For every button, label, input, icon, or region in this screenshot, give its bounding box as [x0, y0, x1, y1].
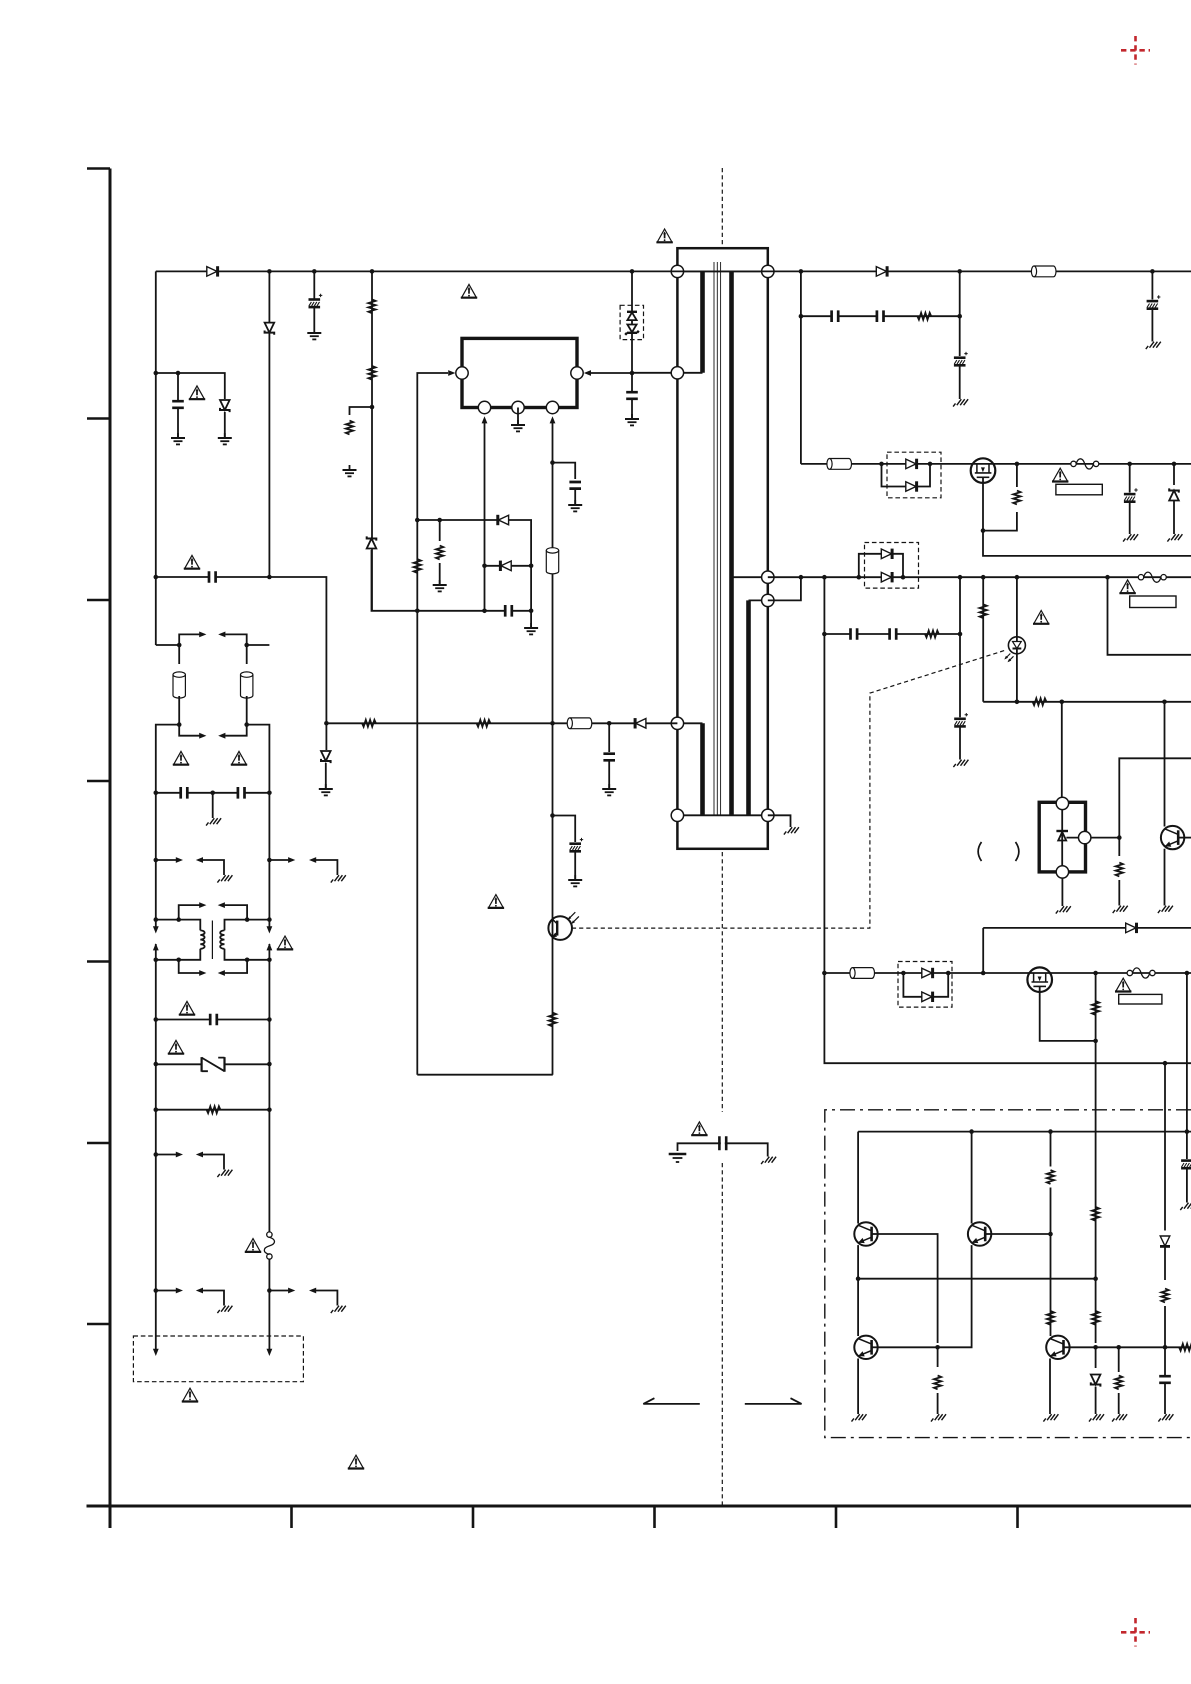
- resistor R19: [934, 1376, 941, 1390]
- diode D3: [635, 718, 646, 728]
- transformer T1 pin 6: [762, 571, 774, 583]
- dashed box diode pair D7: [865, 543, 919, 589]
- node dot y973 x983: [981, 971, 986, 976]
- capacitor C18: [890, 627, 897, 641]
- MOSFET Q11: [1027, 967, 1052, 992]
- resistor R16: [1116, 863, 1123, 877]
- node dots y1064: [154, 1062, 272, 1067]
- capacitor C11: [210, 1013, 217, 1027]
- ground at C2: [171, 433, 185, 444]
- transistor Q9: [1046, 1336, 1069, 1359]
- wire Q8 emitter: [857, 1359, 859, 1410]
- fuse F4: [1127, 968, 1155, 978]
- node dot x1119 y837: [1117, 835, 1122, 840]
- node dot y577 x1016: [1015, 575, 1020, 580]
- node dot x246 y645: [244, 643, 249, 648]
- wire diode row y566: [485, 565, 532, 567]
- wire Q8 collector chain: [1050, 1234, 1052, 1336]
- ground chassis at U2: [1056, 901, 1071, 914]
- arrow into U1 pin1: [482, 416, 488, 423]
- capacitor C16 electrolytic: [1124, 488, 1138, 501]
- capacitor C9: [181, 786, 188, 800]
- zener diode ZD2: [367, 536, 377, 548]
- node dot x326 y723: [324, 721, 329, 726]
- wire x824 vertical long: [823, 577, 825, 973]
- wire cap stub x178: [177, 373, 179, 400]
- AC inlet dashed box: [133, 1336, 303, 1382]
- connector arrow pair y905 stub left: [179, 902, 207, 919]
- wire right rail choke to fuse: [268, 960, 270, 1232]
- node dot y577 x800: [799, 575, 804, 580]
- connector arrow pair y634 stub left: [179, 632, 206, 646]
- wire snubber row y316: [801, 315, 960, 317]
- connector arrow pair y1290 right rail: [269, 1288, 337, 1301]
- rail break arrows left rail: [153, 926, 159, 960]
- capacitor C10: [238, 786, 245, 800]
- transformer T1 pin 5: [762, 265, 774, 277]
- wire U1 left pin feed: [417, 373, 448, 1075]
- node dot y566 x531: [529, 564, 534, 569]
- wire R19 branch: [937, 1347, 939, 1367]
- node dot y1131 x1186: [1185, 1129, 1190, 1134]
- warning triangle above U1: [461, 284, 477, 297]
- diode D6a: [906, 459, 917, 469]
- capacitor C17: [851, 627, 858, 641]
- wire zener stub x1095: [1095, 1347, 1097, 1368]
- wire C14 to ground: [959, 366, 961, 394]
- warning triangle near LED: [1033, 611, 1049, 624]
- node dot y566 x484: [482, 564, 487, 569]
- wire x1165 vertical chain: [1164, 1063, 1166, 1230]
- ground chassis at R16: [1113, 901, 1128, 914]
- wire y373 sub-branch: [156, 373, 225, 399]
- ground chassis at C14: [953, 394, 968, 407]
- inductor bead L8: [850, 968, 875, 979]
- capacitor C4: [602, 754, 616, 761]
- wire right rail corner to bead L5: [247, 645, 270, 664]
- wire Q6 collector: [857, 1132, 859, 1224]
- node dot left rail y1154: [154, 1152, 159, 1157]
- border frame left ticks: [87, 169, 110, 1325]
- dashed box diode pair D9: [898, 962, 952, 1008]
- zener diode ZD5 upper: [627, 312, 637, 320]
- common mode choke L6 core: [211, 921, 213, 960]
- resistor R21: [1092, 1311, 1099, 1325]
- capacitor C19 electrolytic: [954, 713, 968, 726]
- ground chassis at ZD8: [1089, 1409, 1104, 1422]
- wire ref sense up to edge: [1119, 758, 1191, 837]
- wire cross link y1278: [858, 1278, 1096, 1280]
- label box F4: [1119, 994, 1162, 1004]
- wire collector rail y1131: [858, 1131, 1191, 1133]
- flow arrow right of center line: [745, 1398, 802, 1404]
- node dot y520 x440: [437, 518, 442, 523]
- wire x632 vertical: [631, 271, 633, 391]
- transistor Q8: [854, 1336, 877, 1359]
- wire parallel branch D9b: [903, 973, 948, 997]
- wire ZD7 to ground: [1173, 501, 1175, 529]
- protection block dash-dot box: [825, 1110, 1191, 1438]
- node dots y1019: [154, 1017, 272, 1022]
- LED of optocoupler PC1a: [1004, 637, 1025, 663]
- wire Q7 collector: [971, 1132, 973, 1224]
- zener diode ZD7: [1169, 488, 1179, 500]
- resistor R5: [477, 720, 491, 727]
- ground chassis at C15: [1146, 337, 1161, 350]
- wire branch to C6: [553, 463, 576, 479]
- resistor row y1110: [156, 1109, 270, 1111]
- node dot y577 x903: [901, 575, 906, 580]
- node dot y973 x1186: [1185, 971, 1190, 976]
- wire x983 feedback branch: [982, 577, 984, 702]
- wire TL431 cathode feed: [1061, 702, 1063, 798]
- wire y577 row: [156, 577, 327, 723]
- wire Q6 emitter: [857, 1245, 859, 1336]
- wire y530 to R11: [983, 512, 1017, 531]
- wire output rail 1: [801, 463, 1191, 465]
- resistor R6: [414, 559, 421, 573]
- wire R23 to base row: [1164, 1306, 1166, 1347]
- wire x531 to ground: [530, 566, 532, 627]
- wire x959 vertical: [959, 271, 961, 356]
- transformer T1 pin 3: [671, 717, 683, 729]
- zener diode ZD3: [220, 400, 230, 412]
- resistor R13: [980, 604, 987, 618]
- warning triangle near C2: [189, 386, 205, 399]
- transformer T1 winding bar right short: [746, 600, 751, 815]
- node dot y611 x531: [529, 609, 534, 614]
- capacitor C14 electrolytic: [954, 352, 968, 365]
- rail break arrows right rail: [267, 926, 273, 960]
- arrow into U1 left pin: [448, 370, 455, 376]
- ground chassis at C16: [1123, 529, 1138, 542]
- inductor bead L1 on B+ rail right: [1031, 266, 1056, 277]
- warning triangle near choke: [277, 936, 293, 949]
- IC U2 pin top: [1056, 797, 1068, 809]
- resistor R9: [207, 1106, 221, 1113]
- node dot left rail y577: [154, 575, 159, 580]
- warning triangle x239: [231, 751, 247, 764]
- ground at C6: [568, 500, 582, 511]
- wire output rail 3: [824, 972, 1191, 974]
- connector arrow pair y736 stub right: [218, 725, 247, 739]
- ground chassis at R22: [1112, 1409, 1127, 1422]
- resistor R20: [1092, 1207, 1099, 1221]
- wire R22 to ground: [1118, 1393, 1120, 1409]
- ground at C1: [307, 328, 321, 339]
- node dot x800 y316: [799, 314, 804, 319]
- wire U1 pin2 ground stub: [517, 408, 519, 425]
- node dot y577 x960: [958, 575, 963, 580]
- zener diode ZD6 lower: [625, 325, 639, 335]
- transistor Q7: [968, 1222, 991, 1245]
- wire U1 right pin feed: [591, 372, 671, 374]
- ground chassis at C9/C10: [206, 813, 221, 826]
- node dots on B+ rail: [267, 269, 1155, 274]
- inductor bead L4: [173, 672, 185, 698]
- wire Q8 base row: [878, 1346, 938, 1348]
- ground at C4: [602, 784, 616, 795]
- wire y611 row: [372, 550, 532, 611]
- node dot y577 x983: [981, 575, 986, 580]
- node dot y1063 x1165: [1163, 1061, 1168, 1066]
- wire X-cap row y1019: [156, 1019, 270, 1021]
- fuse F3: [1138, 572, 1166, 582]
- wire R17 connections: [1050, 1132, 1052, 1234]
- ground chassis at Y-cap right: [761, 1152, 776, 1165]
- resistor R17: [1047, 1170, 1054, 1184]
- capacitor C15 electrolytic: [1147, 295, 1161, 308]
- node dots y1110: [154, 1107, 272, 1112]
- warning triangle near F4: [1115, 978, 1131, 991]
- wire x1174 vertical: [1173, 464, 1175, 485]
- capacitor C8: [625, 392, 639, 399]
- node dot y702 x1164: [1162, 700, 1167, 705]
- ground at C8: [625, 414, 639, 425]
- wire x609 cap branch: [608, 723, 610, 752]
- diode D7b: [881, 549, 892, 559]
- node dots choke corners: [154, 917, 272, 962]
- capacitor C13: [877, 309, 884, 323]
- node dot left rail y860: [154, 858, 159, 863]
- arrow into U1 pin3: [550, 416, 556, 423]
- warning triangle bottom center-left: [348, 1455, 364, 1468]
- transformer T1 pin 1: [671, 265, 683, 277]
- wire main B+ rail top: [156, 270, 1191, 272]
- node dot y464 x1016: [1015, 462, 1020, 467]
- transistor Q6: [854, 1222, 877, 1245]
- node dot x179 y724: [177, 722, 182, 727]
- dashed box dual zener: [620, 305, 643, 339]
- capacitor C6: [568, 482, 582, 489]
- diode D6b: [906, 481, 917, 491]
- node dot y577 x824: [822, 575, 827, 580]
- capacitor Y1 (isolation): [719, 1136, 726, 1150]
- wire C2 to ground: [177, 409, 179, 437]
- dashed box diode pair D6: [887, 452, 941, 498]
- wire output rail 2: [768, 576, 1191, 578]
- Y-capacitor bridge wire: [678, 1143, 768, 1151]
- wire C6 to ground: [574, 490, 576, 504]
- zener diode ZD1: [265, 323, 275, 335]
- node dot x179 y645: [177, 643, 182, 648]
- ground at ZD3: [218, 433, 232, 444]
- node dot y577 x858: [857, 575, 862, 580]
- resistor R22: [1115, 1376, 1122, 1390]
- resistor R3: [346, 421, 353, 435]
- diode D9a: [922, 968, 933, 978]
- resistor R4: [362, 720, 376, 727]
- wire parallel branch D6b: [882, 464, 931, 487]
- warning triangle near F2: [1052, 468, 1068, 481]
- wire LED branch x1016: [1016, 577, 1018, 702]
- wire ZD8 to ground: [1095, 1387, 1097, 1409]
- node dot y702 x1061: [1060, 700, 1065, 705]
- node dot R2 bottom: [370, 405, 375, 410]
- flow arrow left of center line: [643, 1398, 700, 1404]
- wire diode row y520: [417, 520, 531, 566]
- capacitor C3: [209, 570, 216, 584]
- transformer T1 winding bar bottom-left: [700, 723, 705, 815]
- IC U2 pin ref: [1079, 831, 1091, 843]
- wire C15 to ground: [1151, 309, 1153, 336]
- connector arrow pair y1154 left rail: [156, 1152, 224, 1165]
- IC U2 internal reference zener: [1056, 803, 1078, 866]
- wire ref divider down: [1118, 838, 1120, 856]
- diode D4: [498, 515, 509, 525]
- node dot y611 x484: [482, 609, 487, 614]
- resistor R24 at edge: [1179, 1344, 1191, 1351]
- connector arrow pair y1290 left rail: [156, 1288, 224, 1301]
- IC U2 TL431 box: [1039, 802, 1085, 872]
- isolation boundary dashed line (below transformer): [721, 852, 723, 1112]
- connector arrow pair y905 stub right: [218, 902, 247, 919]
- IC U1 pin bottom2: [512, 401, 524, 413]
- resistor R10: [917, 313, 931, 320]
- node dot x858 y1278: [856, 1276, 861, 1281]
- resistor R18: [1047, 1311, 1054, 1325]
- resistor R1: [368, 299, 375, 313]
- node dot y973 x1095: [1093, 971, 1098, 976]
- inductor bead L2: [567, 718, 592, 729]
- capacitor C5: [505, 604, 512, 618]
- ground at U1 pin2: [511, 420, 525, 431]
- resistor R11: [1013, 491, 1020, 505]
- ground at x531: [524, 623, 538, 634]
- wire x1186 vertical: [1186, 973, 1188, 1132]
- wire R11 top to rail: [1016, 464, 1018, 487]
- connector arrow pair y860 left rail: [156, 857, 224, 870]
- node dot y793 left: [154, 791, 159, 796]
- wire x1107 to lower label row: [1108, 577, 1191, 655]
- resistor R15: [1092, 1001, 1099, 1015]
- node dot y464 x881: [879, 462, 884, 467]
- inductor bead L7: [827, 459, 852, 470]
- isolation boundary dashed line (bottom): [721, 1163, 723, 1505]
- wire C21 to ground: [1164, 1384, 1166, 1409]
- node dot x1095 y1278: [1093, 1276, 1098, 1281]
- wire Q5 emitter to ground: [1164, 849, 1166, 901]
- dashed optocoupler link: [572, 651, 1005, 929]
- wire center stub to ground: [212, 793, 214, 813]
- connector arrow pair y860 right rail: [269, 857, 337, 870]
- node dot x824 y634: [822, 632, 827, 637]
- wire C21 stub: [1164, 1347, 1166, 1375]
- node dot y793 center: [210, 791, 215, 796]
- warning triangle near PC1b: [488, 895, 504, 908]
- wire Q6 base link: [878, 1234, 938, 1343]
- node dot y1347 x1118: [1116, 1345, 1121, 1350]
- ground at R3: [343, 465, 357, 476]
- node dot y464 x1129: [1127, 462, 1132, 467]
- wire pin7 jog to output rail 2: [768, 577, 801, 600]
- node dot x552 y815: [550, 813, 555, 818]
- node dot x417 y611: [415, 609, 420, 614]
- warning triangle at Y-cap: [691, 1122, 707, 1135]
- resistor R8: [549, 1013, 556, 1027]
- wire U1 pin3 chain: [552, 420, 554, 1075]
- inductor bead L5: [241, 672, 253, 698]
- transformer T1 pin 4: [671, 809, 683, 821]
- connector arrow pair y973 stub left: [179, 960, 207, 976]
- wire right rail resume y724: [247, 725, 270, 928]
- wire cap branch x314: [313, 271, 315, 328]
- node dot y723 x552: [550, 721, 555, 726]
- warning triangle near SA1: [168, 1040, 184, 1053]
- node dot x1095 y1040: [1093, 1039, 1098, 1044]
- node dot x632 y373: [630, 371, 635, 376]
- node dot y1347 x1165: [1163, 1345, 1168, 1350]
- wire U2 anode to ground: [1061, 878, 1063, 901]
- wire Q5 collector: [1164, 702, 1166, 827]
- resistor R14: [1033, 698, 1047, 705]
- arrow into U1 right pin: [584, 370, 591, 376]
- wire x800 vertical from B+: [800, 271, 802, 464]
- resistor R2: [368, 366, 375, 380]
- wire Q5 base to edge: [1184, 837, 1191, 839]
- wire C7 to ground: [574, 852, 576, 879]
- transformer T1 pin 7: [762, 594, 774, 606]
- ground chassis at Q9: [1043, 1409, 1058, 1422]
- warning triangle near C11: [179, 1001, 195, 1014]
- transformer T1 primary winding bar top-left: [700, 271, 705, 372]
- zener diode ZD8: [1091, 1375, 1101, 1387]
- wire parallel branch D7b: [859, 554, 903, 577]
- resistor R23: [1161, 1289, 1168, 1303]
- warning triangle near F1: [245, 1239, 261, 1252]
- node dot y1131 x1050: [1048, 1129, 1053, 1134]
- wire U1 loop bottom: [417, 1074, 553, 1076]
- capacitor C21: [1158, 1376, 1172, 1383]
- transformer T1 core lines: [714, 262, 721, 815]
- wire R22 stub: [1118, 1347, 1120, 1372]
- capacitor C1 electrolytic: [309, 294, 323, 307]
- arrow into AC inlet left: [153, 1349, 159, 1356]
- transformer T1 pin 8: [762, 809, 774, 821]
- arrow into AC inlet right: [267, 1349, 273, 1356]
- node dot x959 y316: [957, 314, 962, 319]
- capacitor C2: [171, 401, 185, 408]
- node dot y973 x824: [822, 971, 827, 976]
- wire C16 to ground: [1129, 502, 1131, 529]
- ground chassis y860 right: [331, 870, 346, 883]
- wire R16 to ground: [1118, 880, 1120, 901]
- wire Q7 emitter to base row: [938, 1245, 972, 1347]
- common mode choke L6 left winding: [156, 920, 205, 960]
- ground at C7: [568, 875, 582, 886]
- wire x326 to zener: [325, 723, 327, 750]
- node dot x937 y1347: [935, 1345, 940, 1350]
- ground at R7: [433, 580, 447, 591]
- wire C4 to ground: [608, 762, 610, 789]
- wire branch to R3: [350, 407, 373, 415]
- node dot y973 x903: [901, 971, 906, 976]
- wire x1186 cap stub: [1186, 1132, 1188, 1159]
- diode D1 on B+ rail: [207, 266, 218, 276]
- ground at ZD4: [319, 784, 333, 795]
- border frame bottom ticks: [292, 1506, 1018, 1528]
- label box F3: [1130, 596, 1176, 608]
- ground chassis at Q8: [852, 1409, 867, 1422]
- wire snubber row y634: [824, 633, 960, 635]
- wire x983 up-branch: [982, 928, 984, 973]
- capacitor C12: [832, 309, 839, 323]
- node dot x246 y724: [244, 722, 249, 727]
- node dot right rail y1290: [267, 1288, 272, 1293]
- wire startup resistor chain x372: [371, 271, 373, 610]
- wire right rail fuse to bottom: [268, 1259, 270, 1351]
- diode D10: [1160, 1236, 1170, 1246]
